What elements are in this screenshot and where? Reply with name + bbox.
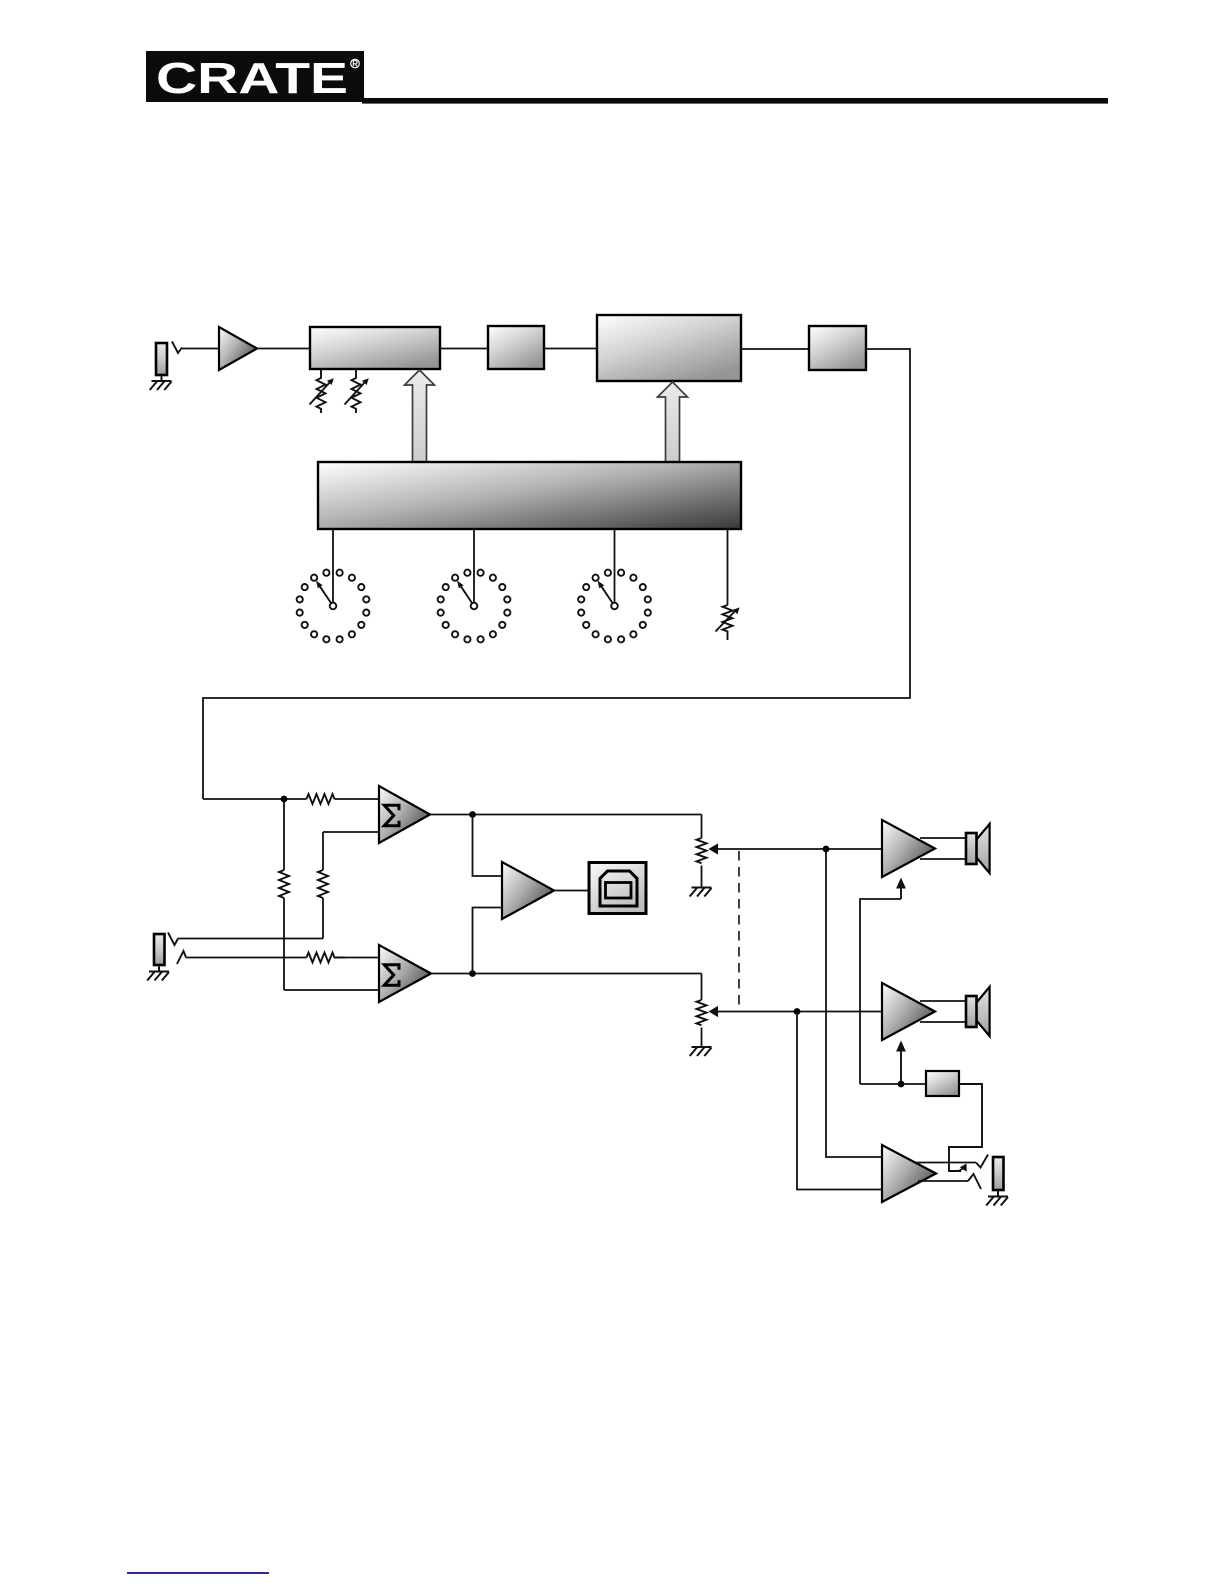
ground: [690, 888, 712, 897]
rotary switch S2: [438, 570, 511, 643]
wiper arrow P2: [709, 1006, 883, 1017]
op-amp U1 input buffer: [219, 327, 257, 370]
contact ring: [968, 1174, 981, 1189]
CRATE logo: [146, 51, 364, 103]
header rule: [362, 98, 1108, 104]
resistor R4: [307, 953, 346, 963]
wire to lower section: [203, 349, 910, 799]
block mute sense: [926, 1071, 959, 1096]
node E: [898, 1081, 905, 1088]
summing amp U2: [379, 786, 430, 843]
wire to jack switch: [949, 1084, 982, 1171]
block DSP controller: [318, 462, 741, 529]
ground: [986, 1190, 1008, 1206]
USB connector: [589, 863, 646, 914]
resistor VR2 gain: [345, 369, 369, 413]
wire U2 output: [430, 814, 702, 816]
jack J1 instrument input: [156, 342, 182, 376]
wire tip out: [916, 1162, 976, 1164]
wire: [182, 348, 219, 350]
wire U3 lower input: [284, 989, 379, 991]
wire mute loop: [860, 899, 901, 1084]
ground: [690, 1047, 712, 1056]
wire: [727, 529, 729, 605]
rotary switch S1: [297, 570, 370, 643]
power amp U5: [882, 820, 935, 877]
wire main to summing: [203, 798, 307, 800]
node D: [794, 1008, 801, 1015]
resistor VR3 level: [716, 605, 740, 640]
potentiometer P2 volume: [697, 974, 707, 1048]
wire aux tip: [178, 938, 323, 940]
wire: [544, 348, 597, 350]
ground: [150, 375, 172, 390]
wire: [473, 908, 503, 974]
block output level: [809, 326, 866, 370]
switch arrow: [959, 1164, 967, 1172]
resistor R2 vertical: [279, 799, 289, 990]
gang dashed link: [738, 851, 740, 1009]
wire: [332, 529, 334, 603]
jack J3 headphones: [993, 1157, 1004, 1190]
speaker SP1: [920, 824, 990, 873]
resistor VR1 gain: [310, 369, 334, 413]
wire: [473, 815, 503, 877]
mute arrow U5: [896, 878, 906, 900]
wire aux ring: [186, 957, 307, 959]
wire: [614, 529, 616, 603]
wire: [797, 1012, 882, 1190]
rotary switch S3: [578, 570, 651, 643]
speaker SP2: [920, 987, 990, 1036]
block effects processor: [597, 315, 741, 381]
wire: [335, 957, 380, 959]
block filter: [488, 326, 544, 369]
wire U3 output: [431, 973, 702, 975]
wiper arrow P1: [709, 843, 883, 854]
op-amp U4 usb send: [502, 862, 554, 919]
resistor R1: [307, 794, 335, 804]
potentiometer P1 volume: [697, 815, 707, 888]
wire: [257, 348, 310, 350]
node C: [823, 846, 830, 853]
svg-text:CRATE: CRATE: [156, 54, 348, 103]
wire: [554, 890, 589, 892]
summing amp U3: [379, 945, 431, 1002]
wire ring out: [918, 1180, 968, 1182]
jack J2 aux input: [154, 933, 186, 966]
block preamp: [310, 327, 440, 369]
resistor R3 vertical: [318, 832, 328, 939]
wire: [826, 849, 882, 1157]
power amp U6: [882, 983, 935, 1040]
contact tip: [976, 1155, 988, 1168]
ground: [147, 965, 169, 981]
block arrow control 2: [658, 382, 688, 463]
wire: [860, 1083, 926, 1085]
headphone amp U7: [882, 1145, 936, 1202]
wire: [335, 798, 380, 800]
block arrow control 1: [405, 370, 435, 463]
wire: [440, 348, 488, 350]
wire: [473, 529, 475, 603]
mute arrow U6: [896, 1041, 906, 1085]
wire U2 lower input: [323, 831, 379, 833]
node B: [469, 970, 476, 977]
node A: [469, 811, 476, 818]
node main: [281, 796, 288, 803]
footer link line: [127, 1572, 269, 1574]
wire: [741, 348, 809, 350]
